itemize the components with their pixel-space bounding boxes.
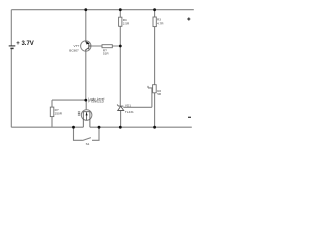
svg-text:250R: 250R <box>55 112 63 116</box>
svg-text:TL431: TL431 <box>125 110 134 114</box>
svg-text:2.5R: 2.5R <box>123 22 130 26</box>
svg-text:S1: S1 <box>86 142 90 146</box>
svg-text:4.7R: 4.7R <box>157 22 164 26</box>
svg-text:VD1: VD1 <box>125 103 131 107</box>
svg-text:+ 3.7V: + 3.7V <box>16 41 34 47</box>
svg-text:51R: 51R <box>103 51 109 55</box>
svg-text:PT5N02LD: PT5N02LD <box>88 100 104 104</box>
svg-text:BC807: BC807 <box>69 48 79 52</box>
